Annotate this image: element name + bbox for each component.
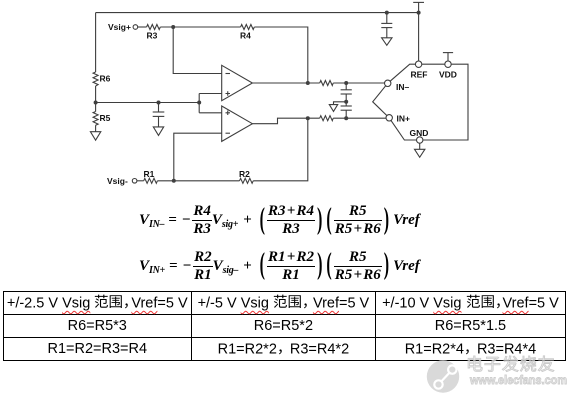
equation VIN+ <box>139 251 420 282</box>
wire mid rail <box>96 102 200 104</box>
pin GND <box>410 128 429 143</box>
terminal Vsig- <box>107 176 137 186</box>
equation VIN- <box>139 205 420 236</box>
svg-text:Vsig+: Vsig+ <box>108 22 131 32</box>
svg-text:IN–: IN– <box>396 82 410 92</box>
resistor R3 <box>147 25 161 41</box>
power supply T top <box>413 2 424 12</box>
svg-text:R5: R5 <box>100 113 111 123</box>
svg-text:R6: R6 <box>100 74 111 84</box>
svg-text:Vsig-: Vsig- <box>107 176 128 186</box>
pin IN- <box>385 80 410 92</box>
wire Vsig+ to R3 <box>138 26 147 28</box>
pin IN+ <box>386 114 410 124</box>
node U1 out feedback junction <box>306 81 310 85</box>
wire R2 to feedback corner <box>253 118 308 181</box>
wire inverting input U1 <box>173 27 222 74</box>
resistor RC top <box>320 81 334 86</box>
svg-text:IN+: IN+ <box>397 114 411 124</box>
wire R1 to R2 <box>157 180 239 182</box>
node R5-R6 junction <box>94 101 98 105</box>
wire inverting input U2 <box>174 133 222 181</box>
table <box>3 291 566 360</box>
resistor R4 <box>240 25 254 41</box>
ground under GND pin <box>415 143 425 157</box>
power supply T VDD <box>443 53 453 61</box>
node caps midpoint <box>344 100 348 104</box>
wire noninverting inputs jog <box>199 94 222 113</box>
node B R1-R2 junction <box>172 179 176 183</box>
node RC bottom cap junction <box>344 116 348 120</box>
resistor RC bottom <box>320 116 334 121</box>
wire R4 to feedback corner <box>254 27 307 83</box>
node bypass cap junction <box>385 11 389 15</box>
ground under R5 <box>90 125 100 140</box>
wire R3 to R4 <box>160 26 240 28</box>
node A R3-R4 junction <box>171 25 175 29</box>
node supply junction <box>417 11 421 15</box>
node mid jog junction <box>197 101 201 105</box>
wire supply to REF <box>418 13 420 61</box>
svg-text:R2: R2 <box>239 169 250 179</box>
wire U2 output line <box>252 118 386 124</box>
op-amp U1 <box>222 65 253 100</box>
pin VDD <box>439 61 457 80</box>
svg-text:R4: R4 <box>240 31 251 41</box>
svg-text:GND: GND <box>410 128 429 138</box>
capacitor C1 <box>153 103 165 127</box>
wire top rail <box>96 12 419 14</box>
capacitor C3 <box>341 102 352 118</box>
wire U1 output line <box>252 82 384 84</box>
wire left vertical <box>95 13 97 103</box>
svg-text:R3: R3 <box>147 31 158 41</box>
op-amp U2 <box>222 106 253 141</box>
node U2 out feedback junction <box>306 116 310 120</box>
resistor R1 <box>144 169 158 183</box>
svg-text:www.elecfans.com: www.elecfans.com <box>469 373 567 387</box>
ground under C4 <box>382 38 392 46</box>
ground caps midpoint <box>329 102 346 112</box>
IC U3 outline <box>373 64 468 140</box>
ground under C1 <box>153 127 163 135</box>
pin REF <box>411 61 428 80</box>
node RC top cap junction <box>344 81 348 85</box>
resistor R5 <box>93 103 111 126</box>
capacitor C4 bypass <box>381 13 392 38</box>
svg-text:VDD: VDD <box>439 70 457 80</box>
resistor R2 <box>239 169 253 183</box>
node cap C1 junction <box>157 101 161 105</box>
svg-text:REF: REF <box>411 70 428 80</box>
wire Vsig- to R1 <box>137 180 144 182</box>
terminal Vsig+ <box>108 22 138 32</box>
resistor R6 <box>93 72 111 86</box>
svg-text:R1: R1 <box>144 169 155 179</box>
capacitor C2 <box>341 83 352 102</box>
